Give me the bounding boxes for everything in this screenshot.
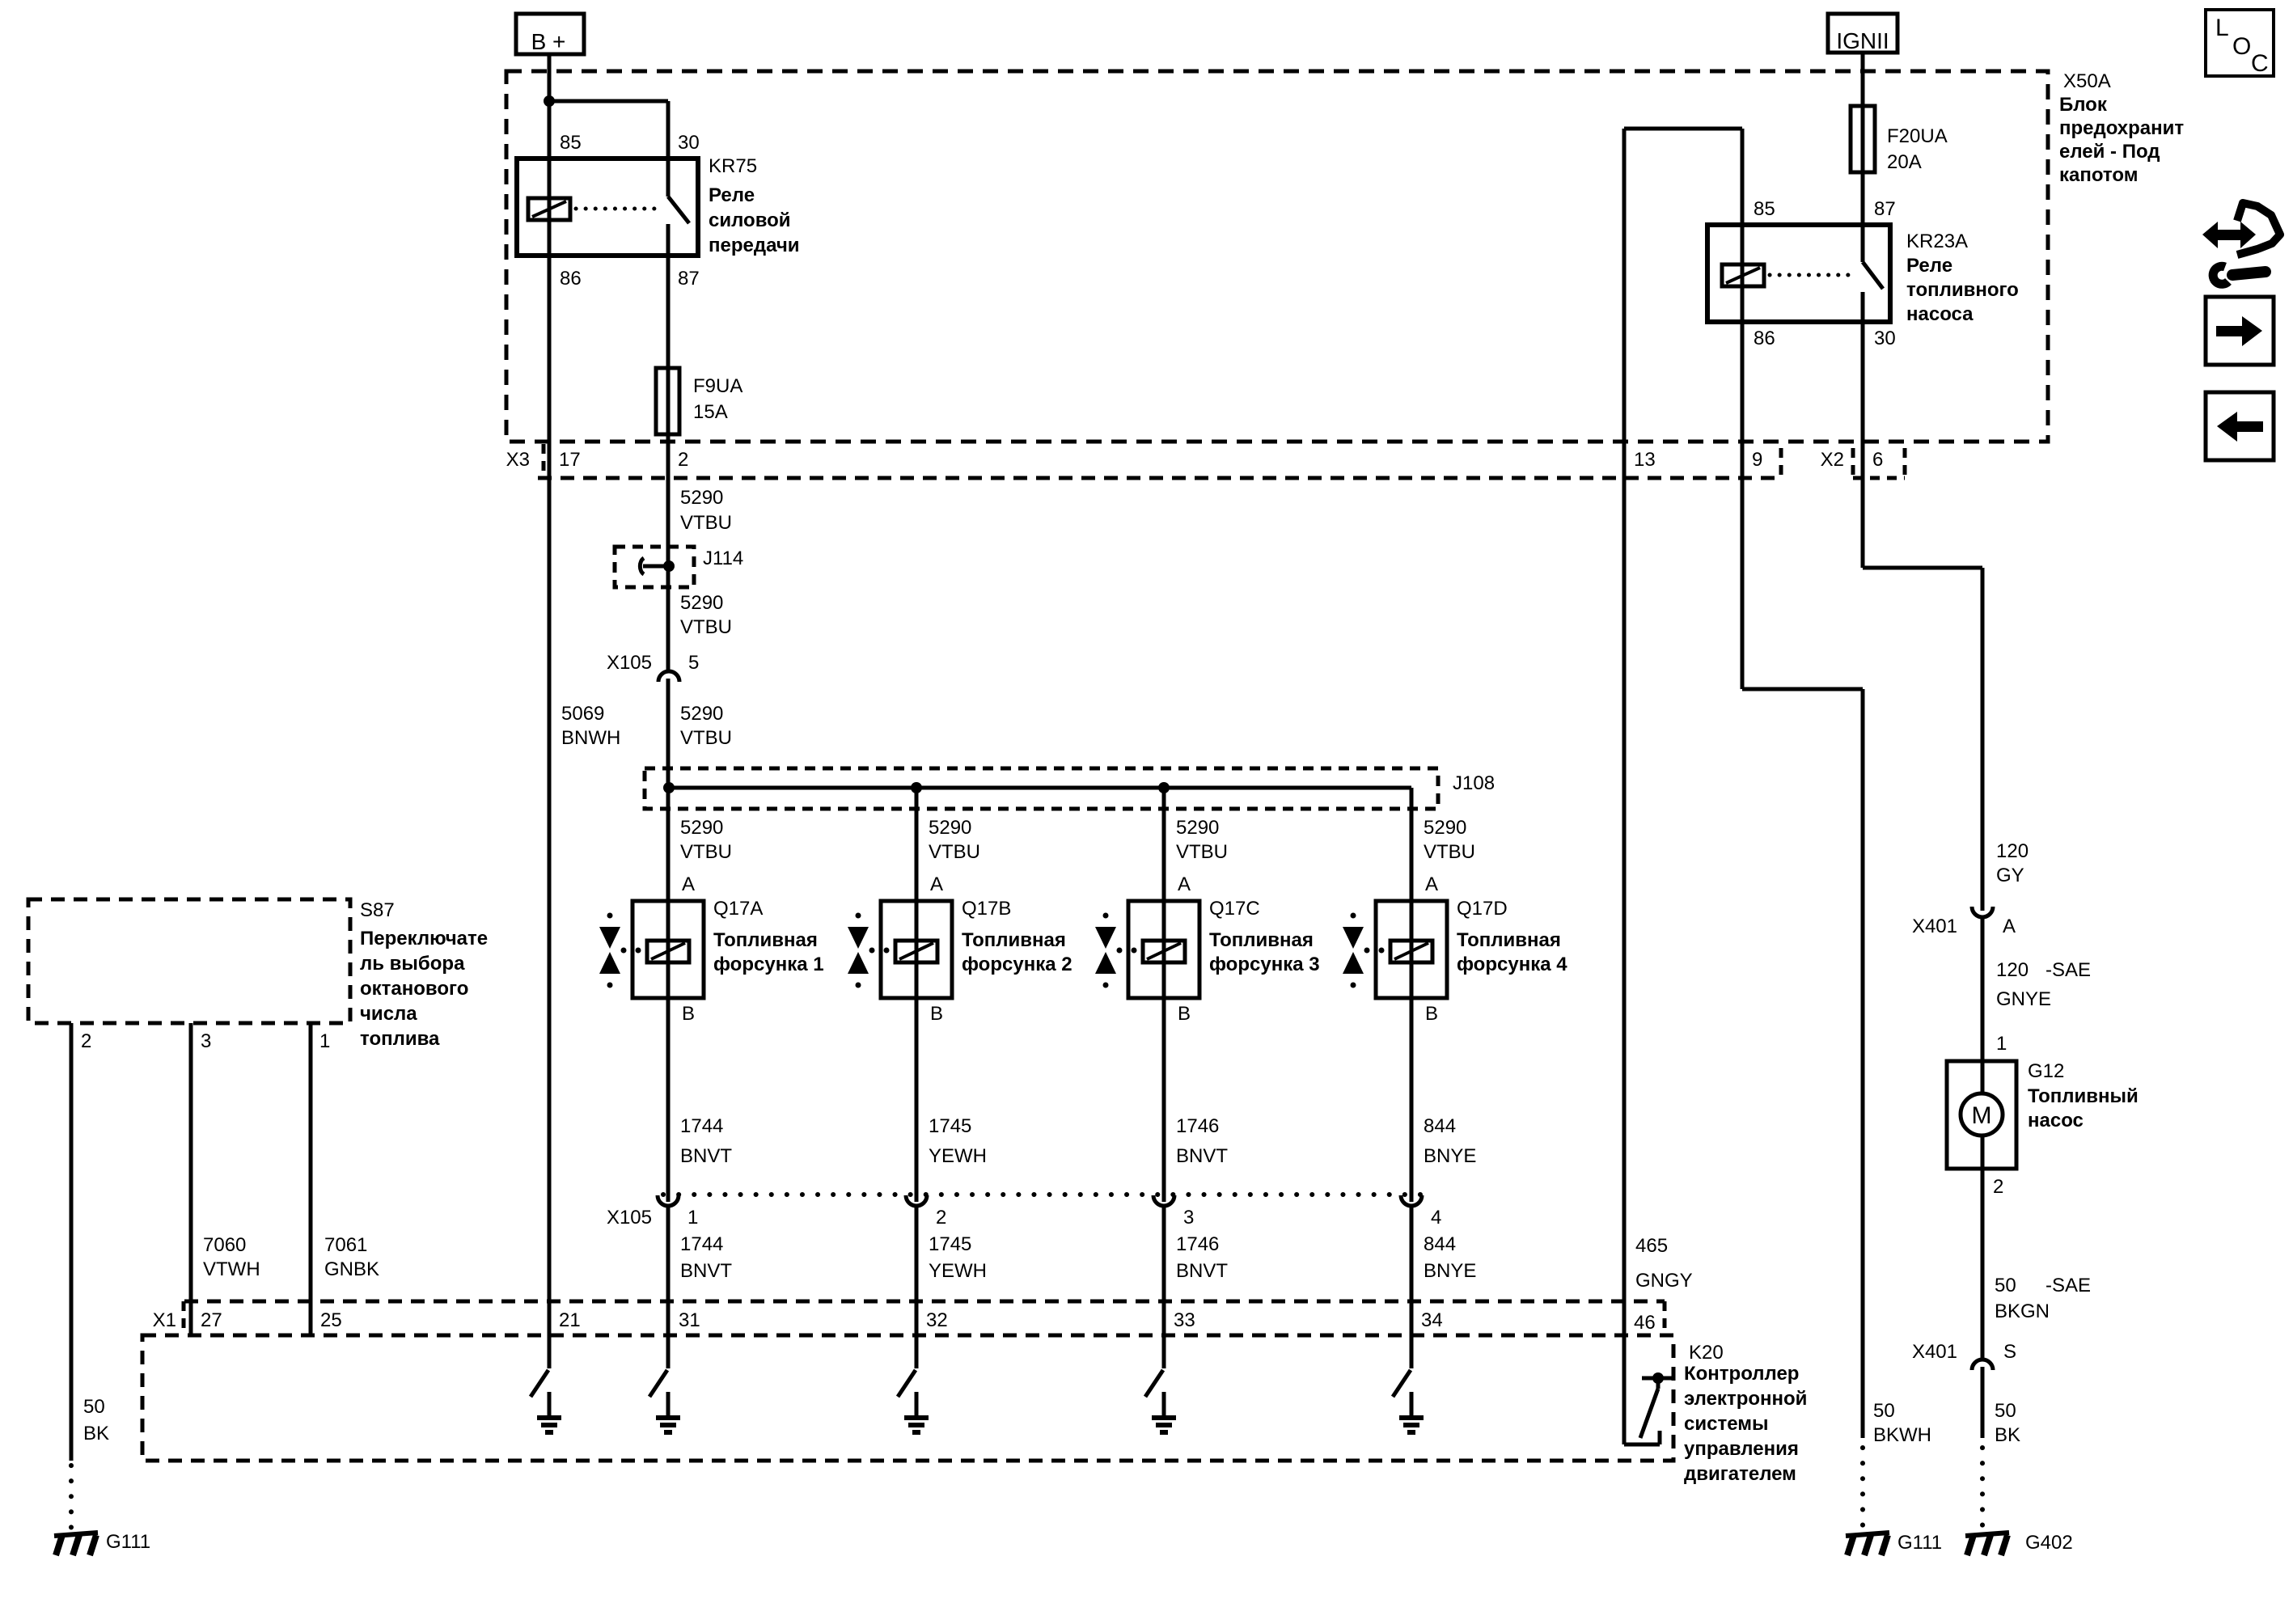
in-line connector X401 pin A	[1972, 907, 1993, 917]
svg-text:A: A	[2003, 916, 2016, 937]
connector X105 label (row)	[607, 1207, 652, 1229]
svg-text:4: 4	[1431, 1207, 1441, 1229]
svg-text:B: B	[1425, 1003, 1438, 1025]
harness routing icon	[2202, 203, 2280, 284]
wire label 5290 VTBU at Q17B	[929, 817, 980, 863]
fuse block X50A (dashed enclosure)	[506, 71, 2048, 442]
svg-text:2: 2	[678, 449, 688, 471]
X1 right bracket	[1663, 1301, 1667, 1335]
svg-text:B: B	[682, 1003, 695, 1025]
K20 ground stub pin 21	[548, 1392, 552, 1415]
svg-text:X3: X3	[506, 449, 530, 471]
svg-text:KR23A: KR23A	[1906, 230, 1968, 252]
KR23A pin 30	[1874, 328, 1896, 349]
svg-text:S87: S87	[360, 899, 395, 921]
Q17C name labels	[1209, 898, 1320, 975]
svg-text:1744: 1744	[680, 1115, 723, 1137]
svg-text:3: 3	[1183, 1207, 1194, 1229]
svg-text:VTBU: VTBU	[680, 727, 732, 749]
svg-text:5290: 5290	[1424, 817, 1466, 839]
G12 pin 1 label	[1996, 1033, 2007, 1055]
F9UA labels	[693, 375, 742, 423]
svg-text:3: 3	[201, 1030, 211, 1052]
svg-text:G111: G111	[1897, 1532, 1942, 1554]
wire label 1746 BNVT (below X105)	[1176, 1233, 1228, 1282]
ground (internal) pin 32	[904, 1418, 929, 1432]
wire label 1746 BNVT (above X105)	[1176, 1115, 1228, 1167]
X1 pin 21	[559, 1309, 581, 1331]
wire: B+ to KR75 pin85/86 down to K20 pin 21	[548, 54, 552, 1368]
KR75 pin 86	[560, 268, 582, 290]
svg-text:1744: 1744	[680, 1233, 723, 1255]
wire: X401 S circuit 50 BK to G402	[1981, 1367, 1985, 1530]
ground (internal) pin 33	[1152, 1418, 1176, 1432]
svg-text:BKGN: BKGN	[1995, 1300, 2050, 1322]
svg-text:управления: управления	[1684, 1438, 1799, 1460]
wire: J108 to injector Q17D / K20 pin 34	[1410, 788, 1414, 1368]
svg-text:форсунка 4: форсунка 4	[1457, 954, 1567, 975]
svg-text:2: 2	[1993, 1176, 2003, 1198]
svg-text:S: S	[2003, 1341, 2016, 1363]
svg-text:6: 6	[1872, 449, 1883, 471]
KR23A pin 85	[1754, 198, 1775, 220]
svg-text:Q17D: Q17D	[1457, 898, 1508, 920]
X105 pin 4	[1431, 1207, 1441, 1229]
KR75 pin 87	[678, 268, 700, 290]
X1 pin 25	[320, 1309, 342, 1331]
svg-text:передачи: передачи	[709, 235, 800, 256]
svg-text:BNWH: BNWH	[561, 727, 620, 749]
svg-text:YEWH: YEWH	[929, 1145, 987, 1167]
svg-text:30: 30	[678, 132, 700, 154]
injector Q17C	[1095, 901, 1199, 998]
wire: G12 pin2 to X401 S	[1981, 1136, 1985, 1360]
ground (internal) pin 21	[537, 1418, 561, 1432]
svg-text:F20UA: F20UA	[1887, 125, 1948, 147]
svg-text:120: 120	[1996, 840, 2029, 862]
svg-text:7061: 7061	[324, 1234, 367, 1256]
S87 pin 2	[81, 1030, 91, 1052]
svg-text:5: 5	[688, 652, 699, 674]
svg-text:Контроллер: Контроллер	[1684, 1363, 1799, 1385]
svg-text:Топливная: Топливная	[962, 929, 1066, 951]
wire label 1745 YEWH (below X105)	[929, 1233, 987, 1282]
svg-text:50: 50	[1995, 1400, 2016, 1422]
X401 pin S	[2003, 1341, 2016, 1363]
svg-text:электронной: электронной	[1684, 1388, 1807, 1410]
relay KR23A box	[1707, 225, 1890, 322]
svg-text:Переключате: Переключате	[360, 928, 488, 949]
pin B of Q17D	[1425, 1003, 1438, 1025]
J108 junction dots	[663, 782, 1170, 793]
X2 pin 6	[1872, 449, 1883, 471]
svg-text:насоса: насоса	[1906, 303, 1974, 325]
svg-text:85: 85	[560, 132, 582, 154]
wire label 5069 BNWH	[561, 703, 620, 749]
svg-text:G111: G111	[106, 1531, 150, 1553]
svg-text:G12: G12	[2028, 1060, 2064, 1082]
svg-text:Q17A: Q17A	[713, 898, 763, 920]
KR23A name labels	[1906, 230, 2019, 325]
svg-text:5290: 5290	[680, 487, 723, 509]
svg-text:1: 1	[319, 1030, 330, 1052]
KR23A pin 87	[1874, 198, 1896, 220]
svg-text:A: A	[1178, 873, 1191, 895]
S87 pin 1	[319, 1030, 330, 1052]
KR75 switch blade pin30-87	[668, 197, 689, 223]
controller K20 (dashed box)	[142, 1335, 1673, 1461]
wire label 120 GNYE -SAE	[1996, 959, 2091, 1010]
svg-text:Топливный: Топливный	[2028, 1085, 2139, 1107]
connector row X1 (top dashed line)	[184, 1300, 1665, 1304]
svg-text:87: 87	[1874, 198, 1896, 220]
K20 driver switch pin 33	[1145, 1370, 1163, 1397]
svg-text:BNYE: BNYE	[1424, 1260, 1476, 1282]
X1 pin 46	[1634, 1312, 1656, 1334]
svg-text:Реле: Реле	[709, 184, 755, 206]
svg-text:C: C	[2251, 50, 2269, 77]
X50A label	[2059, 70, 2184, 186]
svg-text:GNBK: GNBK	[324, 1258, 379, 1280]
svg-text:BNVT: BNVT	[680, 1260, 732, 1282]
G12 pin 2 label	[1993, 1176, 2003, 1198]
svg-text:86: 86	[560, 268, 582, 290]
wire label 5290 VTBU (above J108)	[680, 703, 732, 749]
svg-text:Топливная: Топливная	[713, 929, 818, 951]
G12 name labels	[2028, 1060, 2139, 1131]
svg-text:46: 46	[1634, 1312, 1656, 1334]
wire label 7060 VTWH	[203, 1234, 260, 1280]
svg-text:B: B	[930, 1003, 943, 1025]
K20 pin46 switch blade	[1640, 1378, 1658, 1438]
svg-text:форсунка 1: форсунка 1	[713, 954, 824, 975]
splice J114 (dashed box)	[615, 547, 694, 587]
svg-text:86: 86	[1754, 328, 1775, 349]
G111 label (left)	[106, 1531, 150, 1553]
svg-text:5290: 5290	[680, 817, 723, 839]
injector Q17B	[848, 901, 952, 998]
X1 left bracket	[182, 1301, 186, 1335]
svg-text:50: 50	[1873, 1400, 1895, 1422]
svg-text:844: 844	[1424, 1233, 1456, 1255]
KR75 name labels	[709, 155, 800, 256]
svg-text:KR75: KR75	[709, 155, 757, 177]
svg-text:предохранит: предохранит	[2059, 117, 2184, 139]
bracket at pin 9	[1779, 448, 1783, 478]
KR75 pin 30	[678, 132, 700, 154]
svg-text:системы: системы	[1684, 1413, 1768, 1435]
fuel pump G12 box	[1947, 1061, 2016, 1169]
ground (internal) pin 34	[1399, 1418, 1424, 1432]
junction node at B+ split	[544, 95, 555, 107]
svg-text:силовой: силовой	[709, 209, 791, 231]
svg-text:A: A	[682, 873, 695, 895]
svg-text:BNVT: BNVT	[1176, 1145, 1228, 1167]
svg-text:Топливная: Топливная	[1209, 929, 1314, 951]
G111 label (right)	[1897, 1532, 1942, 1554]
svg-text:5290: 5290	[929, 817, 971, 839]
svg-text:Реле: Реле	[1906, 255, 1952, 277]
svg-text:VTBU: VTBU	[680, 841, 732, 863]
svg-text:капотом: капотом	[2059, 164, 2138, 186]
svg-text:X50A: X50A	[2063, 70, 2111, 92]
svg-text:форсунка 2: форсунка 2	[962, 954, 1072, 975]
svg-text:Топливная: Топливная	[1457, 929, 1561, 951]
Q17D name labels	[1457, 898, 1567, 975]
ground G111 (left)	[54, 1533, 98, 1555]
svg-text:B +: B +	[531, 29, 566, 54]
arrow-right legend box	[2206, 297, 2274, 365]
svg-text:25: 25	[320, 1309, 342, 1331]
wire: KR75 pin87 circuit 5290 VTBU down to injector Q17A and K20 pin 31	[666, 224, 671, 1368]
J108 bus wire	[669, 786, 1411, 790]
X105 terminal 4	[1401, 1195, 1422, 1206]
connector row X3 (bottom dashed line)	[538, 476, 1779, 480]
svg-text:X105: X105	[607, 1207, 652, 1229]
LOC legend box	[2206, 10, 2274, 77]
svg-text:форсунка 3: форсунка 3	[1209, 954, 1320, 975]
X105 pin 5 number	[688, 652, 699, 674]
wire label 5290 VTBU (above J114)	[680, 487, 732, 534]
KR23A coil-contact dotted link	[1770, 273, 1857, 277]
wire label 5290 VTBU at Q17A	[680, 817, 732, 863]
svg-text:27: 27	[201, 1309, 222, 1331]
wire: KR23A pin85/86 circuit 50 BKWH to G111	[1742, 129, 1863, 1530]
wire label 120 GY	[1996, 840, 2029, 886]
svg-text:Q17C: Q17C	[1209, 898, 1260, 920]
svg-text:насос: насос	[2028, 1110, 2084, 1131]
wire: J108 to injector Q17C / K20 pin 33	[1162, 788, 1166, 1368]
svg-text:13: 13	[1634, 449, 1656, 471]
pin A of Q17C	[1178, 873, 1191, 895]
wire: jog from B+ to KR75 pin30	[549, 101, 668, 197]
svg-text:VTBU: VTBU	[680, 616, 732, 638]
J114 splice symbol	[640, 558, 675, 574]
X1 pin 33	[1174, 1309, 1195, 1331]
F20UA labels	[1887, 125, 1948, 173]
wire label 1744 BNVT (below X105)	[680, 1233, 732, 1282]
svg-text:VTBU: VTBU	[680, 512, 732, 534]
svg-text:VTBU: VTBU	[1176, 841, 1228, 863]
svg-text:X1: X1	[153, 1309, 176, 1331]
svg-text:87: 87	[678, 268, 700, 290]
X3 pin 2	[678, 449, 688, 471]
wire label 5290 VTBU at Q17D	[1424, 817, 1475, 863]
connector X1 label	[153, 1309, 176, 1331]
svg-text:B: B	[1178, 1003, 1191, 1025]
J114 label	[703, 548, 743, 569]
in-line connector X401 pin S	[1972, 1360, 1993, 1370]
connector X3 label	[506, 449, 530, 471]
X105 terminal 3	[1153, 1195, 1174, 1206]
svg-text:5290: 5290	[680, 703, 723, 725]
svg-text:BK: BK	[1995, 1424, 2020, 1446]
pin B of Q17C	[1178, 1003, 1191, 1025]
K20 driver switch pin 32	[898, 1370, 916, 1397]
svg-text:октанового: октанового	[360, 978, 468, 1000]
svg-text:топлива: топлива	[360, 1028, 440, 1050]
svg-text:O: O	[2232, 33, 2251, 60]
X105 terminal 1	[658, 1195, 679, 1206]
svg-text:5290: 5290	[680, 592, 723, 614]
S87 name labels	[360, 899, 488, 1050]
ground G111 (right)	[1846, 1533, 1889, 1555]
splice J108 (dashed box)	[645, 768, 1438, 809]
K20 driver switch pin 21	[531, 1370, 548, 1397]
fuse F9UA	[656, 368, 679, 434]
svg-text:20A: 20A	[1887, 151, 1922, 173]
svg-text:1745: 1745	[929, 1233, 971, 1255]
K20 pin46 drive line	[1642, 1372, 1674, 1384]
svg-text:120: 120	[1996, 959, 2029, 981]
connector X401 label (A)	[1912, 916, 1957, 937]
svg-text:33: 33	[1174, 1309, 1195, 1331]
connector X105 label (pin 5)	[607, 652, 652, 674]
svg-text:1746: 1746	[1176, 1115, 1219, 1137]
arrow-left legend box	[2206, 392, 2274, 460]
svg-text:GY: GY	[1996, 865, 2024, 886]
Q17A name labels	[713, 898, 824, 975]
svg-text:X401: X401	[1912, 916, 1957, 937]
svg-text:X401: X401	[1912, 1341, 1957, 1363]
svg-text:VTWH: VTWH	[203, 1258, 260, 1280]
svg-text:VTBU: VTBU	[1424, 841, 1475, 863]
connector row X105 dotted line	[663, 1192, 1428, 1197]
K20 ground stub pin 33	[1162, 1392, 1166, 1415]
X105 pin 3	[1183, 1207, 1194, 1229]
wire: J108 to injector Q17B / K20 pin 32	[915, 788, 919, 1368]
injector Q17A	[599, 901, 704, 998]
KR75 coil-contact dotted link	[576, 207, 663, 211]
svg-text:-SAE: -SAE	[2046, 959, 2091, 981]
svg-text:7060: 7060	[203, 1234, 246, 1256]
svg-text:465: 465	[1635, 1235, 1668, 1257]
svg-text:J108: J108	[1453, 772, 1495, 794]
svg-text:X2: X2	[1821, 449, 1844, 471]
wire: IGNII through F20UA to KR23A pin87	[1861, 53, 1865, 262]
svg-text:BNYE: BNYE	[1424, 1145, 1476, 1167]
X3 pin 13	[1634, 449, 1656, 471]
connector X2 label	[1821, 449, 1844, 471]
relay KR75 box	[517, 159, 698, 256]
svg-text:елей - Под: елей - Под	[2059, 141, 2160, 163]
pin A of Q17A	[682, 873, 695, 895]
pin B of Q17A	[682, 1003, 695, 1025]
svg-text:1: 1	[687, 1207, 698, 1229]
svg-text:9: 9	[1752, 449, 1762, 471]
svg-text:30: 30	[1874, 328, 1896, 349]
svg-text:GNGY: GNGY	[1635, 1270, 1693, 1292]
K20 driver switch pin 34	[1393, 1370, 1411, 1397]
G12 motor symbol	[1961, 1093, 2003, 1136]
X3 pin 17	[559, 449, 581, 471]
X105 pin 1	[687, 1207, 698, 1229]
svg-text:BKWH: BKWH	[1873, 1424, 1931, 1446]
wire: S87 pin1 circuit 7061 GNBK to K20 pin 25	[309, 1023, 313, 1335]
G402 label	[2025, 1532, 2073, 1554]
KR23A switch blade pin87-30	[1863, 262, 1883, 289]
svg-text:50: 50	[83, 1396, 105, 1418]
K20 driver switch pin 31	[649, 1370, 667, 1397]
svg-text:BK: BK	[83, 1423, 109, 1444]
svg-text:17: 17	[559, 449, 581, 471]
svg-text:F9UA: F9UA	[693, 375, 742, 397]
wire label 844 BNYE (above X105)	[1424, 1115, 1476, 1167]
wire label 1744 BNVT (above X105)	[680, 1115, 732, 1167]
X1 pin 32	[926, 1309, 948, 1331]
svg-text:G402: G402	[2025, 1532, 2073, 1554]
K20 ground stub pin 34	[1410, 1392, 1414, 1415]
ground G402	[1965, 1533, 2009, 1555]
svg-text:85: 85	[1754, 198, 1775, 220]
svg-text:-SAE: -SAE	[2046, 1275, 2091, 1296]
svg-text:BNVT: BNVT	[680, 1145, 732, 1167]
K20 ground stub pin 32	[915, 1392, 919, 1415]
svg-text:32: 32	[926, 1309, 948, 1331]
K20 pin46 fixed contact hook	[1624, 1431, 1660, 1444]
K20 name labels	[1684, 1342, 1807, 1485]
X105 pin 2	[936, 1207, 946, 1229]
wire label 50 BK (left)	[83, 1396, 109, 1444]
svg-text:J114: J114	[703, 548, 743, 569]
svg-text:X105: X105	[607, 652, 652, 674]
KR23A pin 86	[1754, 328, 1775, 349]
svg-text:IGNII: IGNII	[1836, 28, 1889, 53]
svg-text:Q17B: Q17B	[962, 898, 1011, 920]
svg-text:1746: 1746	[1176, 1233, 1219, 1255]
bracket pair X2 pin 6	[1853, 448, 1905, 478]
wire label 7061 GNBK	[324, 1234, 379, 1280]
X105 terminal 2	[906, 1195, 927, 1206]
svg-text:A: A	[930, 873, 943, 895]
node IGNII	[1828, 14, 1897, 53]
svg-text:VTBU: VTBU	[929, 841, 980, 863]
wire label 844 BNYE (below X105)	[1424, 1233, 1476, 1282]
svg-text:15A: 15A	[693, 401, 728, 423]
pin A of Q17B	[930, 873, 943, 895]
connector X401 label (S)	[1912, 1341, 1957, 1363]
svg-text:2: 2	[81, 1030, 91, 1052]
svg-text:топливного: топливного	[1906, 279, 2019, 301]
S87 pin 3	[201, 1030, 211, 1052]
svg-text:1: 1	[1996, 1033, 2007, 1055]
svg-text:5290: 5290	[1176, 817, 1219, 839]
svg-text:ль выбора: ль выбора	[360, 953, 465, 975]
svg-text:YEWH: YEWH	[929, 1260, 987, 1282]
K20 ground stub pin 31	[666, 1392, 671, 1415]
ground (internal) pin 31	[656, 1418, 680, 1432]
node B+	[516, 14, 584, 54]
wire: jog pin13 to KR23A pin85	[1624, 127, 1742, 131]
pin B of Q17B	[930, 1003, 943, 1025]
svg-text:5069: 5069	[561, 703, 604, 725]
svg-text:1745: 1745	[929, 1115, 971, 1137]
in-line connector X105 pin 5	[658, 671, 679, 682]
KR75 coil	[528, 198, 570, 220]
svg-text:M: M	[1972, 1102, 1992, 1129]
X1 pin 34	[1421, 1309, 1443, 1331]
X1 pin 31	[679, 1309, 700, 1331]
svg-text:50: 50	[1995, 1275, 2016, 1296]
X1 pin 27	[201, 1309, 222, 1331]
svg-text:GNYE: GNYE	[1996, 988, 2051, 1010]
switch S87 (dashed box)	[28, 899, 350, 1023]
svg-text:31: 31	[679, 1309, 700, 1331]
X401 pin A	[2003, 916, 2016, 937]
svg-text:34: 34	[1421, 1309, 1443, 1331]
svg-text:A: A	[1425, 873, 1438, 895]
Q17B name labels	[962, 898, 1072, 975]
